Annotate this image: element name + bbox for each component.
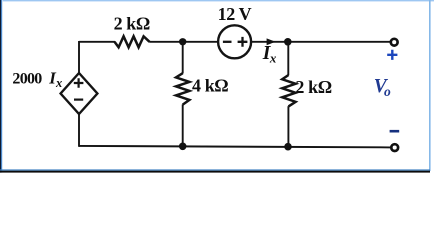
terminal bottom-right (open circle) [391, 144, 398, 151]
wire left branch lower (dependent source to bottom) [78, 114, 80, 147]
wire right branch lower (R3 to bottom node) [287, 106, 289, 147]
label R2 value 4 kOhm [192, 75, 228, 95]
wire middle branch upper (node to R2) [182, 42, 184, 74]
svg-text:2 kΩ: 2 kΩ [114, 14, 150, 34]
label R1 value 2 kOhm [114, 14, 150, 34]
label current Ix [262, 43, 277, 66]
label output voltage Vo (blue) [374, 76, 391, 99]
terminal top-right (open circle) [391, 39, 398, 46]
wire right branch upper (node to R3) [287, 42, 289, 75]
node junction dot (bottom of 2k branch) [284, 143, 292, 151]
label R3 value 2 kOhm [295, 77, 331, 97]
current arrow Ix [267, 38, 276, 45]
svg-text:x: x [269, 50, 277, 65]
svg-text:4 kΩ: 4 kΩ [192, 75, 228, 95]
node junction dot (bottom of 4k branch) [179, 143, 187, 151]
label - polarity (blue) [390, 130, 400, 133]
dependent source E1 (diamond, 2000 Ix) [61, 73, 98, 114]
svg-text:12 V: 12 V [218, 4, 252, 24]
label V1 value 12 V [218, 4, 252, 24]
node junction dot (top of 2k branch) [284, 38, 292, 46]
wire middle branch lower (R2 to bottom node) [182, 104, 184, 146]
voltage source V1 12 V [218, 25, 251, 58]
svg-text:x: x [55, 76, 62, 90]
node junction dot (top of 4k branch) [179, 38, 186, 45]
wire top-right (V1 to terminal) [252, 41, 390, 43]
wire left branch upper (corner to dependent source) [78, 41, 80, 73]
wire top-left horizontal (node corner to R1) [79, 41, 115, 43]
label + polarity (blue) [387, 50, 397, 60]
resistor R3 2 kOhm (right vertical) [282, 75, 295, 106]
label dependent source value 2000 Ix [12, 68, 62, 90]
resistor R2 4 kOhm (middle vertical) [176, 73, 189, 104]
svg-text:o: o [384, 84, 391, 99]
svg-text:2 kΩ: 2 kΩ [295, 77, 331, 97]
svg-text:2000: 2000 [12, 70, 42, 87]
resistor R1 2 kOhm (top horizontal) [115, 36, 150, 47]
frame borders (decorative) [0, 0, 434, 173]
wire bottom (left corner to bottom terminal) [79, 146, 390, 148]
wire top-middle (R1 to source V1) [149, 41, 217, 43]
